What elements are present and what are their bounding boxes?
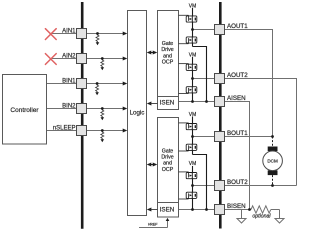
svg-text:BISEN: BISEN — [227, 203, 246, 210]
svg-text:BOUT2: BOUT2 — [227, 179, 248, 186]
svg-text:Drive: Drive — [161, 47, 173, 53]
svg-text:OCP: OCP — [162, 60, 174, 66]
svg-text:AIN2: AIN2 — [62, 54, 76, 60]
svg-text:AOUT2: AOUT2 — [227, 72, 248, 79]
svg-text:BIN2: BIN2 — [62, 104, 76, 110]
svg-text:optional: optional — [252, 214, 271, 220]
svg-text:Gate: Gate — [162, 148, 174, 154]
svg-text:AOUT1: AOUT1 — [227, 23, 248, 30]
svg-text:Controller: Controller — [10, 107, 39, 114]
svg-text:VM: VM — [189, 161, 197, 167]
svg-text:VM: VM — [189, 4, 197, 10]
svg-text:VREF: VREF — [148, 222, 158, 226]
svg-text:DCM: DCM — [267, 159, 278, 164]
svg-text:ISEN: ISEN — [160, 207, 175, 214]
svg-text:AIN1: AIN1 — [62, 29, 76, 35]
svg-text:OCP: OCP — [162, 167, 174, 173]
svg-text:AISEN: AISEN — [227, 95, 246, 102]
svg-text:VM: VM — [189, 52, 197, 58]
svg-text:ISEN: ISEN — [160, 100, 175, 107]
svg-text:VM: VM — [189, 112, 197, 118]
svg-text:nSLEEP: nSLEEP — [53, 126, 76, 132]
svg-text:Drive: Drive — [161, 155, 173, 161]
svg-text:and: and — [163, 53, 172, 59]
svg-text:BIN1: BIN1 — [62, 79, 76, 85]
svg-text:Logic: Logic — [130, 109, 145, 116]
svg-text:and: and — [163, 161, 172, 167]
svg-text:BOUT1: BOUT1 — [227, 130, 248, 137]
svg-text:Gate: Gate — [162, 41, 174, 47]
